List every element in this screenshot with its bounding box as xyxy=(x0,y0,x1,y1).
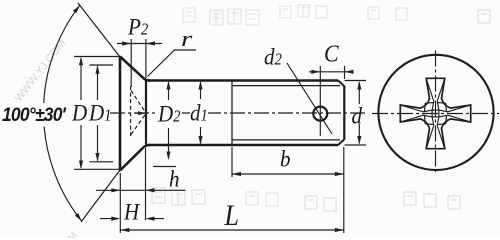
head outline: face, cone edges, fillets xyxy=(120,57,150,171)
svg-text:.COM: .COM xyxy=(55,230,80,238)
b/L extension line right (shank end) xyxy=(343,147,345,233)
dimension D1 line with arrows xyxy=(97,66,99,161)
angle extension line upper xyxy=(78,3,120,57)
watermark top center xyxy=(183,5,407,25)
label r xyxy=(181,27,192,53)
b arrow left xyxy=(232,172,241,176)
d2 leader line through hole xyxy=(287,63,332,134)
thread minor diameter line top xyxy=(232,85,340,87)
label L xyxy=(225,199,239,233)
cross recess beak wings xyxy=(425,103,447,125)
dimension D2 line with arrows (inside shank) xyxy=(168,82,170,159)
watermark left xyxy=(13,38,69,105)
dimension d: extension ticks right of shank end xyxy=(345,81,367,146)
head front view circle xyxy=(378,55,493,170)
label P2 xyxy=(128,13,148,41)
D2 bottom reference tick xyxy=(153,166,176,168)
shank bottom outline xyxy=(148,144,338,147)
recess apex arrow on centerline xyxy=(138,111,146,115)
hidden recess cone lower (dashed) xyxy=(131,114,146,135)
h dimension line xyxy=(96,189,186,191)
hidden recess wing line (dashed vertical) xyxy=(130,86,132,136)
centerline axis of screw xyxy=(110,112,368,114)
arc arrowhead top xyxy=(73,5,80,13)
label d1 xyxy=(190,99,208,127)
H arrow left (outside) xyxy=(111,217,120,221)
label d2 xyxy=(264,43,282,71)
L arrow left xyxy=(120,228,129,232)
P2 extension line left xyxy=(130,39,132,87)
label b xyxy=(280,145,291,173)
arc arrowhead bottom xyxy=(75,213,82,221)
label C xyxy=(324,39,339,68)
shank top outline xyxy=(148,79,338,82)
dimension b line xyxy=(232,173,344,175)
P2 arrow left (outside pointing right) xyxy=(122,41,131,45)
hole center extension line (for C) xyxy=(319,66,321,136)
watermark bottom center xyxy=(152,188,336,211)
svg-text:WWW.YJ.COM: WWW.YJ.COM xyxy=(13,38,69,105)
b extension line left (thread start) xyxy=(231,147,233,177)
dimension d line with arrows xyxy=(358,82,360,144)
angle extension line lower xyxy=(81,170,120,222)
shank end edge xyxy=(343,86,345,140)
dimension C line xyxy=(309,71,353,73)
dimension D: extension ticks xyxy=(74,57,120,170)
dimension D line with arrows xyxy=(80,58,82,168)
label H xyxy=(124,198,139,226)
label D2 xyxy=(158,100,181,128)
C arrow left (outside) xyxy=(311,70,320,74)
cross recess center square xyxy=(432,110,439,117)
h arrow right (outside) xyxy=(146,188,155,192)
end chamfer bottom xyxy=(338,139,344,145)
watermark bottom-left corner xyxy=(55,230,80,240)
C arrow right (outside) xyxy=(345,70,354,74)
label D1 xyxy=(89,99,112,127)
head height extension line down xyxy=(145,148,147,220)
vertical centerline of front view xyxy=(435,51,437,173)
L arrow right xyxy=(335,228,344,232)
label h xyxy=(169,165,180,193)
cross recess outer outline xyxy=(400,78,470,148)
thread minor diameter line bottom xyxy=(232,139,340,141)
H arrow right (outside) xyxy=(146,217,155,221)
watermark right xyxy=(404,10,490,209)
hidden recess cone upper (dashed) xyxy=(131,91,146,113)
end chamfer top xyxy=(338,81,344,87)
r leader line xyxy=(148,50,197,77)
H dimension line xyxy=(100,218,164,220)
C extension line right (shank end) xyxy=(344,66,346,79)
L dimension line xyxy=(120,229,343,231)
P2 arrow right (outside pointing left) xyxy=(146,41,155,45)
head-shank junction edge line xyxy=(145,81,147,145)
h arrow left (outside) xyxy=(111,188,120,192)
b arrow right xyxy=(335,172,344,176)
angle dimension arc 100deg xyxy=(44,5,82,221)
dimension P2 line xyxy=(117,43,162,45)
hole in shank (circle) xyxy=(313,107,327,121)
horizontal centerline of front view xyxy=(372,113,499,115)
label D xyxy=(72,99,87,127)
P2 extension line right xyxy=(145,39,147,78)
label 100 deg +-30' xyxy=(2,103,65,127)
thread start line xyxy=(231,81,233,146)
head face extension line down xyxy=(119,173,121,233)
dimension d1 line with arrows (inside shank) xyxy=(200,82,202,144)
dimension D1: extension ticks xyxy=(90,65,114,162)
cross recess inner flank lines xyxy=(400,78,470,148)
label d xyxy=(352,102,363,130)
